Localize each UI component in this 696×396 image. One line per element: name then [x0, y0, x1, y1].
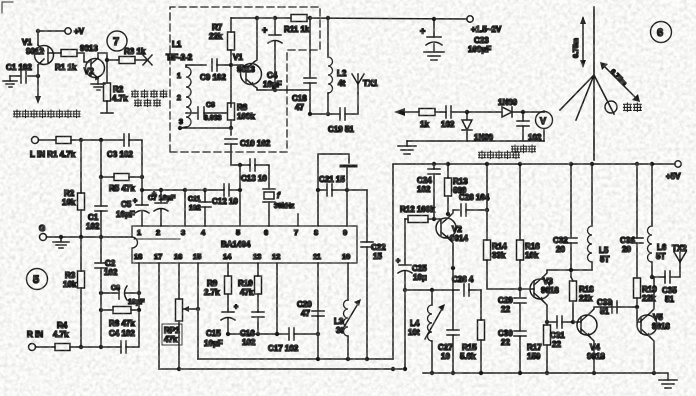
- node v3 base div: [518, 287, 522, 291]
- capacitor C29: [498, 296, 526, 331]
- node c15 bus: [226, 332, 230, 336]
- node C1 junction: [36, 74, 40, 78]
- wire c26 to r14: [466, 209, 487, 211]
- node L x81: [79, 138, 83, 142]
- node det junction1: [465, 110, 469, 114]
- wire v2r emitter: [449, 239, 453, 268]
- node R5 right: [140, 175, 144, 179]
- wire V1 emitter: [37, 31, 39, 45]
- resistor R15: [460, 290, 485, 361]
- capacitor C24: [417, 164, 440, 219]
- wire c13 riser: [239, 165, 241, 190]
- node bus c11: [203, 188, 207, 192]
- node r14 c26: [485, 208, 489, 212]
- wire c bus y334: [228, 333, 289, 335]
- node C4 top: [273, 16, 277, 20]
- capacitor C17: [268, 328, 318, 353]
- node C4 emitter: [273, 88, 277, 92]
- wire R3 to input: [135, 59, 146, 61]
- ground V2: [91, 84, 105, 90]
- inductor L4: [408, 290, 445, 341]
- node rail c32: [569, 162, 573, 166]
- wire L row b: [71, 139, 124, 141]
- wire x393 riser: [392, 165, 394, 359]
- label rf detector: [479, 151, 520, 159]
- capacitor det 102b: [517, 112, 542, 142]
- transformer L1: [166, 40, 193, 127]
- node w2 x393: [391, 367, 395, 371]
- node pin3 rail left: [178, 126, 182, 130]
- meter V: [512, 111, 553, 153]
- resistor R2: [62, 189, 85, 210]
- node w1 pin11: [316, 357, 320, 361]
- node rail c34: [635, 162, 639, 166]
- node input X: [143, 55, 152, 65]
- wire detector arrow: [394, 108, 419, 116]
- node C6 left: [99, 291, 103, 295]
- resistor R5 row: [101, 174, 142, 194]
- node base junction: [229, 63, 233, 67]
- wire c13 to crystal: [255, 165, 269, 189]
- wire emitter node bus: [310, 113, 340, 115]
- capacitor C26: [459, 193, 490, 216]
- resistor R6 row: [101, 307, 139, 329]
- wire r12 to base: [428, 218, 440, 220]
- wire R8 bottom node: [230, 120, 232, 135]
- node R2 junction: [105, 58, 109, 62]
- wire R1 to V2 base: [77, 53, 89, 62]
- node R6 left: [99, 308, 103, 312]
- capacitor C16: [240, 294, 264, 347]
- node circled 6: [651, 22, 672, 43]
- wire arrow to supply: [35, 96, 41, 104]
- capacitor C9: [200, 59, 226, 82]
- capacitor C21: [318, 175, 347, 196]
- wire V1 collector down: [37, 65, 39, 100]
- node circled 7: [107, 31, 127, 51]
- node r18 c31: [571, 320, 575, 324]
- wire r15 bottom: [480, 340, 482, 373]
- node c25 w2: [403, 367, 407, 371]
- dimension diagonal 0.75m: [600, 62, 640, 102]
- capacitor C4R: [109, 329, 135, 353]
- capacitor C11: [188, 190, 211, 226]
- wire V2 collector: [98, 53, 119, 60]
- wire R3 bottom: [80, 288, 82, 347]
- node rail l5: [590, 162, 594, 166]
- crystal 38kHz: [263, 189, 295, 226]
- antenna TX2: [672, 244, 687, 268]
- wire r18 bottom: [572, 301, 574, 322]
- antenna radials: [560, 75, 614, 120]
- node pin3 rail right: [229, 126, 233, 130]
- node L2 top: [326, 16, 330, 20]
- node emitter tank: [451, 266, 455, 270]
- wire r17: [546, 322, 548, 325]
- capacitor C18: [292, 18, 316, 114]
- node w1 L3: [346, 357, 350, 361]
- node bus pin3: [183, 188, 187, 192]
- capacitor C34: [620, 164, 643, 278]
- wire G row: [47, 236, 133, 238]
- inductor L5: [588, 164, 610, 270]
- capacitor C23: [420, 19, 491, 54]
- antenna TX1: [352, 74, 378, 93]
- node L x101: [99, 138, 103, 142]
- capacitor C22: [347, 190, 386, 359]
- node pin8 c21: [316, 188, 320, 192]
- wire R2 top: [106, 60, 108, 83]
- resistor R16: [517, 164, 541, 260]
- wire L1 bottom: [180, 127, 186, 128]
- node c10 c13: [238, 163, 242, 167]
- wire det c: [512, 111, 544, 113]
- wire tank top: [405, 289, 459, 291]
- capacitor C7: [148, 190, 176, 226]
- inductor L6: [648, 164, 667, 277]
- wire v5 collector: [650, 277, 665, 313]
- wire C19 to TX1: [345, 93, 358, 114]
- node r13 base: [446, 212, 450, 216]
- wire R2 bottom: [101, 101, 113, 113]
- capacitor C33: [597, 298, 617, 316]
- wire C9 to base: [217, 64, 243, 66]
- wire v4 collector: [590, 307, 637, 313]
- capacitor C1L: [86, 140, 107, 237]
- wire +5V rail: [393, 163, 675, 165]
- transistor V2: [80, 44, 105, 81]
- node C18 top: [308, 16, 312, 20]
- node rail l6: [650, 162, 654, 166]
- wire v2r collector: [449, 210, 459, 217]
- wire v3 emitter: [543, 301, 547, 322]
- wire L row a: [39, 139, 57, 141]
- resistor det 1k: [419, 109, 435, 130]
- wire det b: [451, 111, 502, 113]
- resistor R12: [400, 205, 435, 223]
- resistor R1L: [56, 137, 71, 144]
- node c33 r19: [635, 305, 639, 309]
- wire c13 bus: [231, 164, 250, 166]
- capacitor C5: [116, 177, 149, 226]
- wire r14 to base: [487, 260, 534, 289]
- inductor L3: [334, 299, 361, 336]
- node rail c24: [432, 162, 436, 166]
- transistor V1: [22, 38, 54, 65]
- node collector rail: [255, 16, 259, 20]
- wire pin7 stub: [297, 214, 299, 226]
- wire R7 top: [230, 18, 232, 32]
- capacitor C28: [452, 275, 481, 296]
- node pin9 c21: [345, 188, 349, 192]
- wire +V rail: [38, 30, 64, 32]
- resistor R10: [238, 276, 262, 297]
- wire rp1 bottom: [178, 321, 180, 369]
- wire v5 emitter: [650, 337, 654, 373]
- capacitor C8: [186, 102, 227, 122]
- wire pin16 rp1: [178, 263, 180, 299]
- wire pin3 up: [184, 190, 186, 226]
- wire v4 emitter: [590, 337, 594, 373]
- corner mark: [2, 2, 13, 13]
- wire bottom rail right: [423, 373, 668, 380]
- ground det: [398, 141, 416, 154]
- wire r19 bottom: [637, 298, 641, 322]
- wire v3 collector: [543, 270, 592, 277]
- wire L row c: [129, 140, 142, 177]
- wire bus to pin5: [229, 189, 240, 191]
- node c16 bus: [256, 332, 260, 336]
- capacitor C1: [6, 63, 38, 83]
- node rail r13: [446, 162, 450, 166]
- wire L1 top to C9: [186, 65, 206, 67]
- capacitor C4: [262, 18, 282, 90]
- node bus pin5: [238, 188, 242, 192]
- wire pin12 down: [276, 263, 278, 334]
- transistor V4: [577, 313, 605, 361]
- wire R3 top: [80, 237, 82, 271]
- resistor R13: [445, 164, 469, 196]
- resistor R4: [53, 321, 70, 351]
- node tank x405: [403, 288, 407, 292]
- wire pin14 down: [227, 263, 229, 276]
- capacitor C15: [204, 294, 238, 348]
- resistor R2: [104, 83, 129, 103]
- capacitor C25: [396, 219, 427, 369]
- wire V1 collector to rail: [254, 18, 257, 62]
- node C18 bottom: [308, 112, 312, 116]
- node G x61: [59, 235, 63, 239]
- resistor R8: [228, 103, 256, 121]
- node C23 top: [432, 17, 436, 21]
- node c22 w1: [365, 357, 369, 361]
- capacitor C19: [328, 108, 354, 134]
- resistor R9: [204, 276, 232, 297]
- wire V1 emitter: [254, 86, 310, 90]
- terminal L IN: [30, 137, 76, 160]
- resistor R3: [119, 47, 146, 64]
- node R x81: [79, 345, 83, 349]
- wire R row b: [70, 346, 121, 348]
- oscillator dashed box: [170, 7, 320, 152]
- node c32 collector: [569, 268, 573, 272]
- capacitor C35: [662, 268, 680, 304]
- capacitor C20: [297, 300, 324, 318]
- resistor R18: [570, 277, 595, 303]
- node C6 right: [137, 291, 141, 295]
- wire pin15 down: [197, 263, 199, 359]
- wire det a: [435, 111, 446, 113]
- node R5 left: [99, 175, 103, 179]
- capacitor C12: [212, 184, 238, 206]
- IC BA1404: [132, 226, 357, 263]
- transistor V5: [637, 313, 670, 337]
- node G x101: [99, 235, 103, 239]
- wire R7 bottom: [230, 50, 232, 107]
- wire R2 top: [80, 140, 82, 193]
- ground G: [53, 237, 69, 248]
- capacitor C10: [225, 139, 271, 165]
- label digital input: [132, 90, 168, 107]
- node R6 right: [137, 308, 141, 312]
- capacitor det 102a: [441, 106, 455, 129]
- dimension vertical 0.75m: [573, 16, 586, 68]
- capacitor C27: [438, 290, 459, 373]
- capacitor C13: [241, 159, 267, 183]
- node c17 pin11: [316, 332, 320, 336]
- node L2 bottom: [326, 112, 330, 116]
- node bus c5: [140, 188, 144, 192]
- terminal +V: [65, 27, 85, 36]
- node pin12 bus: [275, 332, 279, 336]
- transistor V1 osc: [233, 53, 262, 86]
- node base v2r: [432, 217, 436, 221]
- diode shunt 1N60: [462, 112, 494, 142]
- resistor R17: [527, 325, 551, 361]
- terminal +5V: [666, 161, 681, 181]
- wire pin8 riser: [318, 154, 349, 226]
- node v3 emitter: [545, 320, 549, 324]
- wire r12 left: [405, 218, 408, 220]
- node l4 top: [430, 288, 434, 292]
- node bus c7: [159, 188, 163, 192]
- node R x101: [99, 345, 103, 349]
- resistor R3: [63, 271, 85, 289]
- transistor V2r: [436, 217, 468, 243]
- resistor R19: [634, 278, 658, 303]
- node rp1 wiper: [196, 307, 200, 311]
- node top-left junction: [36, 29, 40, 33]
- wire l4 bottom: [431, 341, 433, 373]
- wire r16 bottom: [519, 260, 521, 298]
- node rp1 w2: [177, 367, 181, 371]
- potentiometer RP1: [162, 299, 198, 345]
- stub plate pin9: [341, 166, 356, 226]
- diode series 1N60: [498, 98, 518, 117]
- capacitor C30: [498, 329, 526, 373]
- wire pin13 down: [257, 263, 259, 276]
- label supply chinese: [14, 110, 81, 118]
- terminal R IN: [27, 330, 43, 351]
- node circled 5: [27, 269, 48, 290]
- capacitor C2: [95, 237, 118, 347]
- wire W2: [159, 368, 405, 370]
- capacitor C3: [107, 134, 133, 159]
- wire r13 bottom: [447, 196, 449, 214]
- ground C23: [424, 52, 444, 60]
- inductor L2: [328, 18, 347, 114]
- capacitor C31: [547, 316, 581, 349]
- node rail bottoms: [430, 371, 656, 375]
- node l6 collector: [650, 275, 654, 279]
- terminal G: [39, 224, 47, 241]
- wire V1 base: [48, 52, 61, 54]
- transistor V3: [530, 277, 559, 301]
- wire W1: [198, 358, 393, 360]
- feeder loop: [605, 101, 641, 113]
- capacitor C32: [553, 164, 577, 277]
- wire R row c: [126, 263, 139, 347]
- wire R2 bottom: [80, 210, 82, 237]
- wire V2 emitter: [97, 78, 99, 84]
- wire bias bus: [142, 189, 224, 191]
- wire L1 pin3 rail: [180, 127, 231, 129]
- resistor R1: [55, 50, 77, 73]
- resistor R14: [484, 164, 508, 260]
- wire pin5: [239, 190, 241, 226]
- ground right rail: [659, 380, 677, 388]
- terminal +1.5-2V: [467, 16, 502, 34]
- wire L3 bottom: [347, 336, 349, 359]
- wire pin10 down: [347, 263, 349, 300]
- wire pin17 down: [158, 263, 160, 369]
- wire R row a: [36, 346, 56, 348]
- wire pin11 down: [317, 263, 319, 359]
- wire box top rail: [231, 17, 291, 19]
- capacitor C6 row: [101, 285, 145, 306]
- resistor R7: [209, 23, 235, 50]
- node G x81: [79, 235, 83, 239]
- node det junction2: [521, 110, 525, 114]
- wire det bottom rail: [407, 140, 544, 142]
- node rail r16: [518, 162, 522, 166]
- resistor R11: [284, 15, 310, 35]
- wire emitter to c28: [452, 268, 454, 290]
- wire R11 to C23 rail: [307, 18, 467, 19]
- node rail r14: [485, 162, 489, 166]
- ground C1: [3, 76, 17, 87]
- antenna mast: [593, 7, 595, 160]
